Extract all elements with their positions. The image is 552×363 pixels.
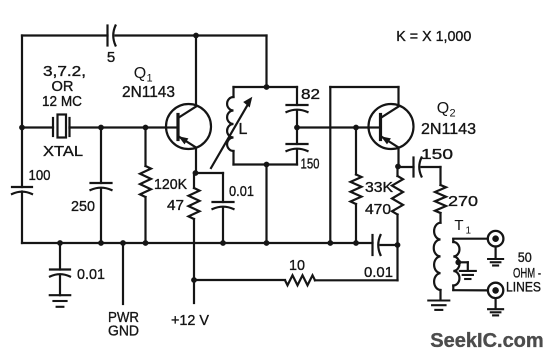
resistor R4 33K	[351, 175, 394, 205]
svg-text:270: 270	[448, 193, 478, 210]
wire emitter to 0.01	[196, 173, 224, 202]
wire top rail right segment	[116, 36, 267, 88]
svg-text:12 MC: 12 MC	[42, 93, 82, 110]
wire 10 ohm to bus	[315, 245, 398, 280]
connector J1 top coax	[488, 231, 504, 259]
svg-text:120K: 120K	[154, 176, 187, 193]
node 0.01-bus junction	[220, 240, 226, 246]
svg-text:XTAL: XTAL	[43, 143, 83, 160]
wire tank top rail	[234, 86, 298, 88]
label T1	[454, 217, 471, 237]
svg-text:LINES: LINES	[506, 280, 541, 295]
capacitor C9 150	[414, 146, 454, 177]
wire gnd-cap bottom lead	[59, 275, 61, 296]
node 470-bus junction	[395, 242, 401, 248]
wire left rail upper	[21, 36, 23, 188]
wire emitter to 150 cap	[398, 166, 414, 168]
svg-text:50: 50	[518, 249, 532, 265]
label +12V	[171, 312, 209, 329]
svg-text:K = X 1,000: K = X 1,000	[396, 28, 471, 45]
wire xtal right lead	[70, 126, 167, 128]
label Q2	[437, 100, 456, 120]
svg-text:5: 5	[107, 49, 115, 66]
wire 0.01 bottom lead	[222, 207, 224, 243]
node +12V junction	[191, 277, 197, 283]
resistor R1 120K	[140, 166, 187, 197]
node tank-bus junction	[264, 240, 270, 246]
svg-text:47: 47	[167, 197, 184, 214]
crystal Y1 XTAL	[43, 115, 83, 161]
wire Q2 emitter lead	[397, 148, 399, 167]
node 250-bus junction	[98, 240, 104, 246]
connector J2 bottom coax	[488, 283, 503, 309]
wire center tap lead	[458, 262, 468, 270]
svg-text:Q: Q	[134, 65, 146, 82]
capacitor C3 0.01 inline	[364, 235, 393, 281]
ground below J2	[488, 309, 503, 315]
svg-text:2N1143: 2N1143	[421, 121, 476, 138]
wire 33K bottom lead	[355, 204, 357, 243]
node base-120K junction	[143, 125, 149, 131]
wire 250 bottom lead	[100, 188, 102, 243]
wire 120K bottom lead	[144, 197, 146, 243]
wire ground bus left	[22, 242, 373, 244]
node Q2 emitter junction	[395, 164, 401, 170]
label 50 ohm lines	[506, 249, 541, 295]
wire +12V to 10 ohm	[194, 279, 285, 281]
svg-text:1: 1	[147, 73, 153, 85]
label Q2 type	[421, 121, 476, 138]
label crystal frequency	[42, 63, 86, 110]
node 120K-bus junction	[143, 240, 149, 246]
svg-text:0.01: 0.01	[77, 266, 105, 283]
wire 150 bottom lead	[296, 149, 298, 165]
wire 82 bottom lead	[296, 110, 298, 128]
ground below J1	[488, 259, 503, 266]
wire 470 leads	[396, 167, 398, 177]
capacitor C1 5pF	[107, 26, 116, 67]
resistor R2 47	[167, 173, 200, 219]
label PWR GND	[108, 309, 139, 340]
wire 120K top lead	[144, 128, 146, 167]
transistor Q2 2N1143	[369, 104, 414, 149]
wire secondary top lead	[453, 238, 488, 240]
capacitor C7 82	[287, 86, 321, 112]
svg-text:250: 250	[71, 198, 95, 215]
wire left rail lower	[21, 192, 23, 244]
svg-text:100: 100	[29, 167, 51, 184]
transformer T1 secondary	[453, 239, 459, 290]
capacitor C2 100	[12, 167, 51, 194]
node bus-gnd-cap junction	[57, 240, 63, 246]
resistor R5 470	[365, 176, 403, 218]
svg-text:2: 2	[450, 108, 456, 120]
label K legend	[396, 28, 471, 45]
ground below C6	[50, 295, 71, 307]
svg-text:SeekIC.com: SeekIC.com	[430, 330, 543, 352]
node tank-top junction	[264, 84, 270, 90]
node divider junction	[294, 125, 300, 131]
wire 270 to primary	[439, 213, 441, 223]
wire 47 to +12V crossing bus	[193, 219, 195, 303]
svg-text:1: 1	[466, 226, 472, 237]
wire 150 cap to 270	[422, 167, 441, 185]
svg-text:150: 150	[421, 146, 453, 163]
wire 150 top lead	[296, 128, 298, 145]
node Q1 emitter junction	[193, 170, 199, 176]
node tank-bottom junction	[264, 162, 270, 168]
svg-text:0.01: 0.01	[229, 183, 254, 200]
wire Q1 collector lead	[195, 36, 197, 106]
svg-text:L: L	[239, 121, 248, 138]
svg-text:2N1143: 2N1143	[122, 84, 175, 101]
svg-text:+12 V: +12 V	[171, 312, 209, 329]
label Q1	[134, 65, 153, 85]
wire tank bottom to bus	[265, 165, 267, 244]
ground below primary	[428, 301, 449, 310]
node pwr-gnd junction	[120, 240, 126, 246]
svg-text:0.01: 0.01	[364, 264, 393, 281]
resistor R6 270	[435, 185, 478, 213]
node base-33K junction	[353, 125, 359, 131]
node rail-base junction	[19, 125, 25, 131]
wire 470 bottom lead	[396, 215, 398, 246]
transformer T1 primary	[434, 223, 441, 300]
wire divider tap to Q2 base	[297, 126, 369, 128]
wire 250 top lead	[100, 128, 102, 184]
node collector-bus junction	[327, 240, 333, 246]
svg-text:82: 82	[301, 86, 320, 103]
ground center tap	[460, 271, 476, 279]
capacitor C8 150	[287, 144, 320, 173]
svg-text:10: 10	[289, 257, 305, 274]
wire 33K top lead	[355, 128, 357, 175]
wire top rail left segment	[22, 34, 108, 36]
wire ground bus right stub	[381, 244, 398, 246]
wire Q2 collector path	[330, 87, 398, 243]
wire PWR GND lead	[122, 243, 124, 304]
resistor R3 10	[285, 257, 315, 285]
inductor L1 variable	[211, 87, 252, 168]
node top-collector junction	[193, 33, 199, 39]
wire 82 top lead	[296, 87, 298, 105]
svg-text:GND: GND	[108, 323, 139, 340]
svg-text:OHM -: OHM -	[513, 265, 541, 281]
label SeekIC watermark	[430, 330, 543, 352]
svg-text:Q: Q	[437, 100, 449, 117]
svg-text:33K: 33K	[365, 179, 393, 196]
capacitor C6 0.01	[50, 266, 105, 283]
node center tap	[455, 259, 461, 265]
capacitor C5 0.01	[213, 183, 255, 209]
wire 0.01 gnd-cap top lead	[59, 243, 61, 270]
label Q1 type	[122, 84, 175, 101]
svg-text:150: 150	[301, 156, 320, 173]
transistor Q1 2N1143	[166, 104, 211, 149]
wire secondary bottom lead	[453, 289, 488, 291]
node xtal-right junction	[98, 125, 104, 131]
wire Q1 emitter lead	[195, 148, 197, 174]
capacitor C4 250	[71, 183, 112, 215]
svg-text:470: 470	[365, 201, 391, 218]
svg-text:T: T	[454, 217, 463, 234]
wire tank bottom rail	[234, 163, 298, 165]
node 33K-bus junction	[353, 240, 359, 246]
wire xtal left lead	[22, 126, 53, 128]
